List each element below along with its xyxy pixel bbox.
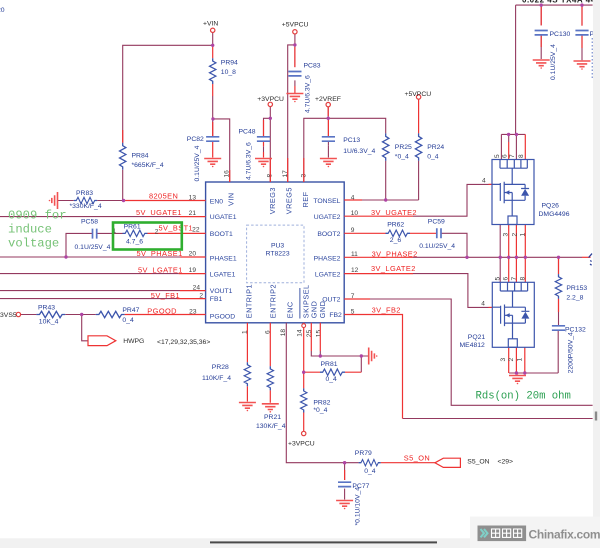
svg-text:3VS5: 3VS5 — [0, 312, 17, 319]
ground PC130 — [533, 60, 550, 69]
svg-text:BOOT1: BOOT1 — [210, 231, 233, 238]
wire 5V_FB1 left — [0, 298, 177, 300]
transistor PQ26 — [482, 154, 570, 237]
svg-text:PR82: PR82 — [313, 399, 330, 406]
capacitor PC83 — [288, 63, 320, 114]
wire PQ26 bottom pins — [509, 225, 526, 258]
wire 5V_BST1 — [148, 232, 206, 234]
junction 3V_PHASE2 pin5 node — [499, 256, 502, 259]
resistor PR62 — [386, 222, 411, 244]
junction +VIN node — [211, 44, 214, 47]
svg-text:PR21: PR21 — [264, 414, 281, 421]
svg-text:+2VREF: +2VREF — [315, 96, 341, 103]
ground PC83 — [286, 94, 303, 103]
wire PC48 leg red — [263, 120, 265, 146]
wire SKIPSEL red — [303, 323, 305, 389]
wire PQ26 drain top — [501, 5, 525, 159]
svg-text:TONSEL: TONSEL — [313, 198, 340, 205]
svg-text:0.1U/25V_4: 0.1U/25V_4 — [194, 145, 201, 181]
svg-text:PGOOD: PGOOD — [210, 313, 235, 320]
wire PQ21 gate 4 red — [489, 306, 493, 308]
wire 3V_UGATE2 — [413, 184, 492, 216]
junction +3VPCU node — [269, 117, 272, 120]
svg-text:0.1U/25V_4: 0.1U/25V_4 — [75, 244, 111, 251]
junction PGOOD node — [80, 313, 83, 316]
svg-text:PR61: PR61 — [124, 223, 141, 230]
power +2VREF — [315, 96, 341, 107]
svg-text:4: 4 — [482, 178, 486, 185]
svg-text:LGATE1: LGATE1 — [210, 272, 236, 279]
resistor PR82 — [301, 388, 331, 413]
svg-text:PHASE2: PHASE2 — [314, 255, 341, 262]
svg-text:PQ26: PQ26 — [542, 203, 560, 210]
svg-text:2_6: 2_6 — [390, 237, 402, 244]
ground PR28 — [239, 403, 256, 412]
svg-text:8: 8 — [519, 277, 526, 281]
svg-text:2200P/50V_4: 2200P/50V_4 — [568, 332, 575, 373]
junction +5VPCU node — [293, 43, 296, 46]
wire TONSEL red — [344, 199, 362, 201]
svg-text:PU3: PU3 — [271, 242, 284, 249]
svg-text:10_8: 10_8 — [221, 69, 236, 76]
wire OUT2 out — [370, 299, 593, 405]
wire PQ26 gate 4 — [489, 183, 493, 185]
wire OUT2 red — [344, 298, 370, 300]
resistor PR81 — [320, 361, 345, 383]
junction VIN pin16 node — [211, 117, 214, 120]
capacitor PC48 — [239, 129, 271, 181]
junction 3V_PHASE2 PR153 node — [557, 256, 560, 259]
junction +2VREF node — [327, 117, 330, 120]
svg-text:0_4: 0_4 — [326, 376, 338, 383]
capacitor PC131 fragment — [575, 31, 594, 81]
junction 3V_PHASE2 pin8 node — [524, 256, 527, 259]
svg-text:6: 6 — [503, 277, 510, 281]
svg-text:VREG3: VREG3 — [268, 187, 277, 214]
svg-text:PGOOD: PGOOD — [147, 306, 177, 315]
green annotation induce voltage — [8, 209, 67, 251]
svg-text:14: 14 — [297, 329, 304, 337]
svg-text:0.1U/25V_4: 0.1U/25V_4 — [419, 243, 455, 250]
wire 3V_UGATE2 red — [344, 215, 413, 217]
junction top rail PC131 node — [580, 3, 583, 6]
svg-text:ME4812: ME4812 — [460, 342, 486, 349]
svg-text:4.7U/6.3V_6: 4.7U/6.3V_6 — [246, 142, 253, 180]
svg-text:20: 20 — [0, 7, 5, 14]
wire +VIN rail — [123, 33, 230, 183]
svg-text:4.7U/6.3V_6: 4.7U/6.3V_6 — [305, 75, 312, 113]
svg-text:PC83: PC83 — [304, 63, 321, 70]
wire PQ26 source col4 — [499, 225, 501, 258]
svg-text:7: 7 — [509, 154, 516, 158]
wire PC83 leg red — [264, 47, 295, 158]
svg-text:8205EN: 8205EN — [149, 192, 178, 201]
svg-text:Rds(on) 20m ohm: Rds(on) 20m ohm — [476, 391, 571, 403]
svg-text:ENC: ENC — [285, 301, 294, 318]
ground PC131 — [574, 61, 591, 70]
wire +3VPCU rail — [264, 107, 271, 182]
svg-text:3V_LGATE2: 3V_LGATE2 — [371, 264, 416, 273]
wire 3V_LGATE2 to PQ21 gate — [413, 274, 489, 308]
svg-text:Chinafix.com: Chinafix.com — [529, 528, 600, 542]
wire PR153 PC132 branch — [509, 257, 559, 373]
wire +3VPCU bot leg red — [303, 413, 305, 432]
wire +5VPCU rail — [288, 34, 295, 182]
resistor PR94 — [210, 58, 239, 84]
svg-text:7: 7 — [511, 277, 518, 281]
green highlight box PR61 — [113, 223, 182, 250]
svg-text:15: 15 — [316, 330, 323, 338]
svg-text:5V_BST1: 5V_BST1 — [159, 224, 194, 233]
wire PR25 PR24 TONSEL — [344, 161, 418, 200]
wire PC77 leg red — [344, 470, 346, 480]
svg-text:PR84: PR84 — [132, 153, 149, 160]
svg-text:PC59: PC59 — [428, 218, 445, 225]
power +VIN — [203, 20, 218, 32]
wire ENC S5 row — [286, 323, 358, 480]
svg-text:1: 1 — [520, 233, 527, 237]
wire PC13 gnd leg — [327, 141, 329, 145]
wire 3V_FB2 red — [344, 315, 402, 419]
svg-text:+3VPCU: +3VPCU — [288, 440, 315, 447]
svg-text:*665K/F_4: *665K/F_4 — [132, 162, 164, 169]
svg-text:2: 2 — [511, 233, 518, 237]
resistor PR28 — [202, 362, 251, 386]
svg-text:EN0: EN0 — [210, 198, 223, 205]
ground PQ21 source — [509, 376, 526, 385]
junction 3V_PHASE2 pin7 node — [515, 256, 518, 259]
svg-text:+VIN: +VIN — [203, 20, 218, 27]
wire 3V_PHASE2 red — [344, 256, 413, 258]
svg-text:130K/F_4: 130K/F_4 — [256, 423, 286, 430]
IC PU3 pin numbers — [189, 170, 359, 337]
svg-text:LGATE2: LGATE2 — [315, 272, 341, 279]
svg-text:ENTRIP2: ENTRIP2 — [269, 284, 278, 318]
wire PR81 right leg — [360, 366, 362, 372]
junction PQ26 drain bus node A — [507, 133, 510, 136]
svg-text:PR83: PR83 — [76, 190, 93, 197]
svg-text:3V_PHASE2: 3V_PHASE2 — [372, 249, 418, 258]
svg-text:voltage: voltage — [8, 236, 59, 250]
wire ENTRIP1 leg — [246, 323, 248, 402]
svg-text:REF: REF — [301, 191, 310, 207]
resistor PR47 — [96, 307, 140, 324]
svg-text:19: 19 — [189, 267, 197, 274]
wire PQ21 top pins — [509, 257, 526, 282]
wire PGOOD left — [21, 314, 96, 316]
svg-text:PC48: PC48 — [239, 129, 256, 136]
net fragment right edge — [589, 254, 592, 266]
svg-text:*0_4: *0_4 — [395, 154, 409, 161]
junction PQ26 drain bus node B — [515, 133, 518, 136]
wire HWPG stub — [82, 315, 88, 341]
wire PQ21 drain col — [499, 257, 501, 282]
wire PR84 top red — [122, 130, 124, 143]
svg-text:PR79: PR79 — [355, 450, 372, 457]
junction TONSEL PR25 node — [384, 198, 387, 201]
wire 8205EN — [124, 200, 206, 202]
svg-text:FB1: FB1 — [210, 296, 223, 303]
svg-text:UGATE1: UGATE1 — [210, 214, 237, 221]
svg-text:12: 12 — [351, 267, 359, 274]
capacitor PC13 — [322, 137, 376, 155]
junction SKIPSEL PR81 node — [302, 371, 305, 374]
svg-text:HWPG: HWPG — [123, 338, 144, 345]
capacitor PC132 — [552, 326, 586, 374]
svg-text:0_4: 0_4 — [122, 317, 134, 324]
svg-text:PR25: PR25 — [395, 144, 412, 151]
power +5VPCU top — [282, 22, 309, 35]
IC PU3 RT8223 body — [206, 182, 345, 323]
capacitor PC82 — [187, 136, 220, 182]
wire PC77 gnd leg — [344, 489, 346, 500]
capacitor PC59 — [419, 218, 455, 250]
wire PR81 red — [304, 371, 362, 373]
svg-text:+5VPCU: +5VPCU — [282, 22, 309, 29]
svg-text:induce: induce — [8, 223, 52, 237]
svg-text:5V_FB1: 5V_FB1 — [151, 291, 180, 300]
wire 5V_LGATE1 left — [0, 273, 179, 275]
ground PR21 — [262, 404, 279, 413]
resistor PR25 — [383, 133, 413, 160]
svg-text:21: 21 — [189, 210, 197, 217]
wire BOOT1 branch — [66, 233, 123, 257]
junction PGND pin1 node — [523, 371, 526, 374]
watermark logo box — [478, 526, 527, 542]
svg-text:5: 5 — [494, 154, 501, 158]
svg-text:0_4: 0_4 — [427, 154, 439, 161]
wire VIN pin16 red — [229, 170, 231, 182]
svg-text:2.2_8: 2.2_8 — [566, 295, 583, 302]
svg-text:*0_4: *0_4 — [313, 407, 327, 414]
svg-text:0.022 4S TX4A 44: 0.022 4S TX4A 44 — [522, 0, 596, 4]
svg-text:+3VPCU: +3VPCU — [257, 96, 284, 103]
junction 5V_PHASE1 node — [64, 255, 67, 258]
wires red nets — [123, 7, 591, 480]
power +3VPCU bottom — [288, 431, 315, 447]
wire PC130 legs red — [541, 7, 582, 48]
svg-text:PHASE1: PHASE1 — [210, 255, 237, 262]
svg-text:8: 8 — [518, 154, 525, 158]
wire PC13 leg red — [327, 120, 329, 137]
svg-text:PR62: PR62 — [387, 222, 404, 229]
resistor PR24 — [415, 133, 444, 160]
wire S5_ON red — [381, 462, 435, 464]
svg-text:1U/6.3V_4: 1U/6.3V_4 — [343, 148, 375, 155]
wire GND bus pins 25 15 — [311, 351, 368, 366]
wire phase tail — [582, 256, 591, 258]
svg-text:PR47: PR47 — [122, 307, 139, 314]
svg-text:PC13: PC13 — [343, 137, 360, 144]
wire PQ21 source pins — [509, 347, 525, 374]
wire REF pin3 red — [270, 158, 304, 182]
svg-text:<29>: <29> — [498, 458, 514, 465]
wire 3V_PHASE2 — [413, 256, 582, 258]
no-connect SKIPSEL — [302, 324, 306, 328]
junction GND bus node A — [319, 354, 322, 357]
svg-text:VREG5: VREG5 — [285, 187, 294, 214]
svg-text:<17,29,32,35,36>: <17,29,32,35,36> — [157, 339, 210, 346]
wire BOOT2 red — [344, 232, 437, 234]
wire +5VPCU right drop red — [418, 99, 420, 133]
svg-text:UGATE2: UGATE2 — [314, 214, 341, 221]
capacitor PC77 — [338, 482, 370, 525]
svg-text:2: 2 — [508, 358, 515, 362]
svg-text:5V_LGATE1: 5V_LGATE1 — [138, 265, 183, 274]
svg-text:RT8223: RT8223 — [266, 251, 290, 258]
svg-text:PC130: PC130 — [550, 31, 571, 38]
wire 5V_UGATE1 — [180, 216, 206, 218]
svg-text:+5VPCU: +5VPCU — [405, 91, 432, 98]
svg-text:0909 for: 0909 for — [8, 209, 67, 223]
resistor PR153 — [555, 274, 587, 301]
svg-text:BOOT2: BOOT2 — [317, 231, 340, 238]
svg-text:*330K/F_4: *330K/F_4 — [70, 203, 102, 210]
svg-text:3: 3 — [503, 233, 510, 237]
connector S5_ON arrow — [435, 458, 461, 467]
junction 8205EN node — [122, 199, 125, 202]
svg-text:DMG4496: DMG4496 — [539, 211, 570, 218]
junction GND bus node B — [360, 354, 363, 357]
wire EN0 left — [58, 170, 124, 201]
svg-text:5: 5 — [495, 277, 502, 281]
IC PU3 pin name labels — [210, 187, 342, 320]
ground PC77 — [336, 501, 353, 510]
junction PGND pin2 node — [515, 371, 518, 374]
svg-text:VOUT1: VOUT1 — [210, 288, 233, 295]
resistor PR61 — [113, 223, 159, 245]
wire BOOT2 PC59 — [441, 233, 467, 257]
watermark backdrop — [470, 517, 600, 548]
svg-text:GND: GND — [318, 301, 327, 319]
resistor PR21 — [256, 366, 286, 430]
junction S5_ON PC77 node — [343, 461, 346, 464]
wire +2VREF REF rail — [304, 107, 386, 182]
svg-text:PC58: PC58 — [81, 219, 98, 226]
svg-text:PR94: PR94 — [221, 60, 238, 67]
svg-text:VIN: VIN — [226, 192, 235, 206]
svg-text:110K/F_4: 110K/F_4 — [202, 375, 231, 382]
svg-text:PQ21: PQ21 — [468, 334, 486, 341]
transistor PQ21 — [460, 277, 535, 362]
svg-text:FB2: FB2 — [329, 312, 342, 319]
svg-text:6: 6 — [502, 154, 509, 158]
ground PC82 — [204, 159, 221, 168]
svg-text:PR24: PR24 — [427, 144, 444, 151]
svg-text:0_4: 0_4 — [364, 468, 376, 475]
svg-text:4: 4 — [481, 301, 485, 308]
junction top rail PC130 node — [540, 3, 543, 6]
scrollbar bottom — [0, 538, 600, 548]
wire 5V_UGATE1 left — [0, 216, 180, 218]
wire +2VREF drop red — [327, 107, 329, 116]
power +5VPCU right — [405, 91, 432, 99]
ground EN0 sideways left — [49, 192, 58, 209]
ground PC48 — [255, 159, 272, 168]
wire PGOOD — [125, 314, 206, 316]
wire 5V_LGATE1 — [179, 273, 206, 275]
wire 5V_PHASE1 — [181, 256, 206, 258]
svg-text:PR28: PR28 — [212, 364, 229, 371]
svg-text:3V_FB2: 3V_FB2 — [372, 305, 401, 314]
wire 5V_FB1 — [177, 298, 206, 300]
wire 5V_PHASE1 left — [0, 256, 181, 258]
wire PC82 legs red — [212, 122, 214, 158]
wire GND pin legs red — [311, 323, 320, 351]
capacitor PC58 — [75, 219, 111, 252]
wire 3V_LGATE2 red — [344, 273, 413, 275]
ground PC13 — [320, 159, 337, 168]
svg-text:S5_ON: S5_ON — [404, 453, 430, 462]
svg-text:4.7_6: 4.7_6 — [126, 239, 143, 246]
resistor PR84 — [120, 143, 164, 170]
svg-text:ENTRIP1: ENTRIP1 — [244, 284, 253, 318]
svg-text:PR81: PR81 — [321, 361, 338, 368]
wire 3V_FB2 out — [403, 418, 593, 420]
wire PQ26 top pin drops red — [509, 134, 526, 159]
wire PR153 leg red — [558, 259, 560, 313]
svg-text:5V_UGATE1: 5V_UGATE1 — [136, 208, 182, 217]
terminal 3VS5 — [0, 312, 21, 319]
svg-text:PR153: PR153 — [566, 285, 587, 292]
svg-text:25: 25 — [306, 330, 313, 338]
capacitor PC130 — [535, 31, 571, 81]
svg-text:PR43: PR43 — [38, 304, 55, 311]
wire VOUT1 red — [180, 290, 206, 292]
junction 3V_PHASE2 PC59 node — [465, 256, 468, 259]
power +3VPCU — [257, 96, 284, 107]
svg-text:PC82: PC82 — [187, 136, 204, 143]
ground GND bus sideways right — [369, 348, 378, 365]
junction 3V_PHASE2 pin6 node — [507, 256, 510, 259]
connector HWPG arrow — [88, 336, 116, 346]
svg-text:22: 22 — [192, 227, 200, 234]
scrollbar right — [593, 0, 600, 548]
wire PR94 legs red — [212, 45, 214, 96]
wire ENTRIP2 leg — [269, 323, 271, 403]
resistor PR83 — [70, 190, 102, 210]
wire VOUT1 left — [0, 290, 180, 292]
svg-text:0.1U/25V_4: 0.1U/25V_4 — [550, 44, 557, 80]
resistor PR43 — [36, 304, 65, 325]
svg-text:10K_4: 10K_4 — [39, 319, 59, 326]
svg-text:3: 3 — [500, 358, 507, 362]
wire top cap rail — [516, 5, 593, 60]
svg-text:S5_ON: S5_ON — [467, 458, 489, 465]
svg-text:*0.1U/10V_4: *0.1U/10V_4 — [355, 487, 362, 526]
resistor PR79 — [355, 450, 381, 475]
svg-text:3V_UGATE2: 3V_UGATE2 — [371, 208, 417, 217]
svg-text:1: 1 — [517, 358, 524, 362]
